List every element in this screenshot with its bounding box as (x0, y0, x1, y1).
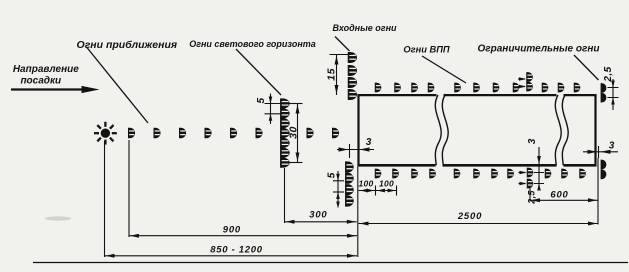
dimension 600 (530, 198, 598, 202)
approach light 2 (154, 128, 161, 139)
approach light 7 (307, 128, 314, 139)
leader line to light horizon (236, 49, 281, 95)
dimension 2,5 limit lights (608, 79, 619, 110)
runway edge light bottom 9 (545, 169, 552, 179)
runway edge light top 7 (493, 83, 500, 93)
extension line from light horizon (284, 168, 286, 223)
approach light 4 (205, 128, 212, 139)
svg-text:2,5: 2,5 (603, 66, 614, 82)
threshold light lower 4 (345, 195, 354, 206)
light horizon light 2 (280, 108, 290, 118)
svg-text:5: 5 (326, 172, 337, 178)
runway edge light top 4 (428, 83, 435, 93)
threshold light upper 2 (348, 65, 357, 76)
runway edge light top 6 (473, 83, 480, 93)
marker light bottom inner (527, 168, 534, 178)
leader line to runway light (422, 56, 466, 83)
threshold light lower 2 (345, 173, 354, 184)
svg-text:3: 3 (366, 137, 372, 148)
runway bottom edge (358, 164, 597, 167)
light horizon light 3 (280, 118, 290, 128)
approach light 1 (128, 128, 135, 139)
dimension 900 (129, 234, 357, 238)
threshold light upper 3 (348, 77, 357, 88)
light horizon light 7 (280, 157, 290, 167)
approach light 6 (256, 128, 263, 139)
svg-text:Огни приближения: Огни приближения (77, 39, 178, 51)
light horizon light 6 (280, 148, 290, 158)
marker light bottom outer (527, 179, 534, 189)
approach light 3 (179, 128, 186, 139)
light horizon light 4 (280, 128, 290, 138)
light horizon light 1 (280, 98, 290, 108)
dimension 5 horizon (265, 94, 283, 125)
svg-text:3: 3 (527, 138, 538, 144)
runway right edge (594, 94, 596, 166)
threshold light upper 4 (348, 89, 357, 100)
svg-text:600: 600 (550, 189, 568, 200)
limit light top 2 (601, 93, 607, 103)
dimension 3 bottom marker (534, 147, 544, 191)
extension line from runway threshold (357, 167, 359, 258)
svg-text:Огни ВПП: Огни ВПП (403, 45, 449, 55)
threshold light upper 1 (348, 52, 357, 63)
runway edge light top 8 (513, 83, 520, 93)
dimension 2500 (359, 222, 599, 226)
svg-text:посадки: посадки (20, 76, 61, 87)
svg-text:15: 15 (326, 68, 338, 81)
runway edge light bottom 2 (392, 169, 399, 179)
leader line to limit lights (574, 55, 599, 80)
break wavy line pair 2 (555, 95, 568, 165)
marker light top outer (526, 72, 533, 82)
approach light 5 (230, 128, 237, 139)
arrows to bottom marker lights (519, 171, 527, 186)
runway edge light top 9 (542, 83, 549, 93)
extension line from 600 marker (529, 188, 531, 202)
runway edge light bottom 10 (561, 169, 568, 179)
runway edge light bottom 3 (411, 169, 418, 179)
dimension 3 right (583, 146, 618, 158)
threshold light lower 3 (345, 184, 354, 195)
runway edge light bottom 4 (429, 169, 436, 179)
extension line from beacon (104, 141, 106, 257)
extension line from runway end (597, 158, 599, 225)
scan smudge (45, 216, 71, 220)
runway edge light top 1 (375, 83, 382, 93)
limit light top 1 (601, 83, 607, 93)
runway left edge (357, 94, 359, 166)
svg-text:Ограничительные огни: Ограничительные огни (478, 44, 600, 55)
runway edge light top 5 (454, 83, 461, 93)
figure bottom rule (33, 262, 628, 264)
light horizon light 5 (280, 138, 290, 148)
limit light bottom 2 (601, 169, 607, 179)
svg-text:900: 900 (223, 225, 241, 236)
svg-text:100: 100 (379, 179, 394, 189)
svg-text:Входные огни: Входные огни (332, 23, 397, 33)
dimension 5 threshold (333, 171, 344, 209)
beacon star (94, 122, 117, 145)
svg-text:5: 5 (256, 97, 267, 103)
svg-text:300: 300 (309, 210, 327, 221)
svg-text:Огни светового горизонта: Огни светового горизонта (189, 39, 316, 49)
svg-text:100: 100 (358, 179, 373, 189)
leader line to approach light (87, 47, 149, 123)
limit light bottom 1 (601, 160, 607, 170)
extension line from first approach light (128, 140, 130, 237)
svg-text:30: 30 (288, 126, 300, 139)
threshold light lower 1 (345, 161, 354, 172)
svg-text:850 - 1200: 850 - 1200 (210, 244, 262, 255)
runway edge light top 2 (394, 83, 401, 93)
runway top edge (358, 94, 597, 96)
dimension 3 left (337, 144, 374, 158)
dimension 15 (330, 55, 353, 96)
svg-text:2500: 2500 (457, 211, 482, 222)
dimension 30 (287, 104, 303, 163)
approach light 8 (332, 128, 339, 139)
runway edge light bottom 1 (375, 169, 382, 179)
runway edge light bottom 5 (454, 169, 461, 179)
runway edge light top 10 (558, 83, 565, 93)
dimension 100 100 (359, 186, 397, 196)
break wavy line pair 1 (435, 95, 448, 165)
leader line to threshold lights (335, 37, 350, 52)
runway edge light bottom 7 (491, 169, 498, 179)
runway edge light bottom 8 (507, 169, 514, 179)
landing direction arrow (11, 86, 100, 93)
dimension 850-1200 (105, 254, 358, 258)
runway edge light top 3 (411, 83, 418, 93)
marker light top inner (526, 82, 533, 92)
arrows to top marker lights (518, 77, 526, 88)
svg-text:2,5: 2,5 (527, 190, 537, 205)
runway edge light bottom 6 (473, 169, 480, 179)
runway edge light top 11 (574, 83, 581, 93)
runway edge light bottom 11 (579, 169, 586, 179)
svg-text:Направление: Направление (13, 64, 79, 75)
svg-text:3: 3 (609, 141, 615, 152)
dimension 300 (285, 220, 357, 224)
